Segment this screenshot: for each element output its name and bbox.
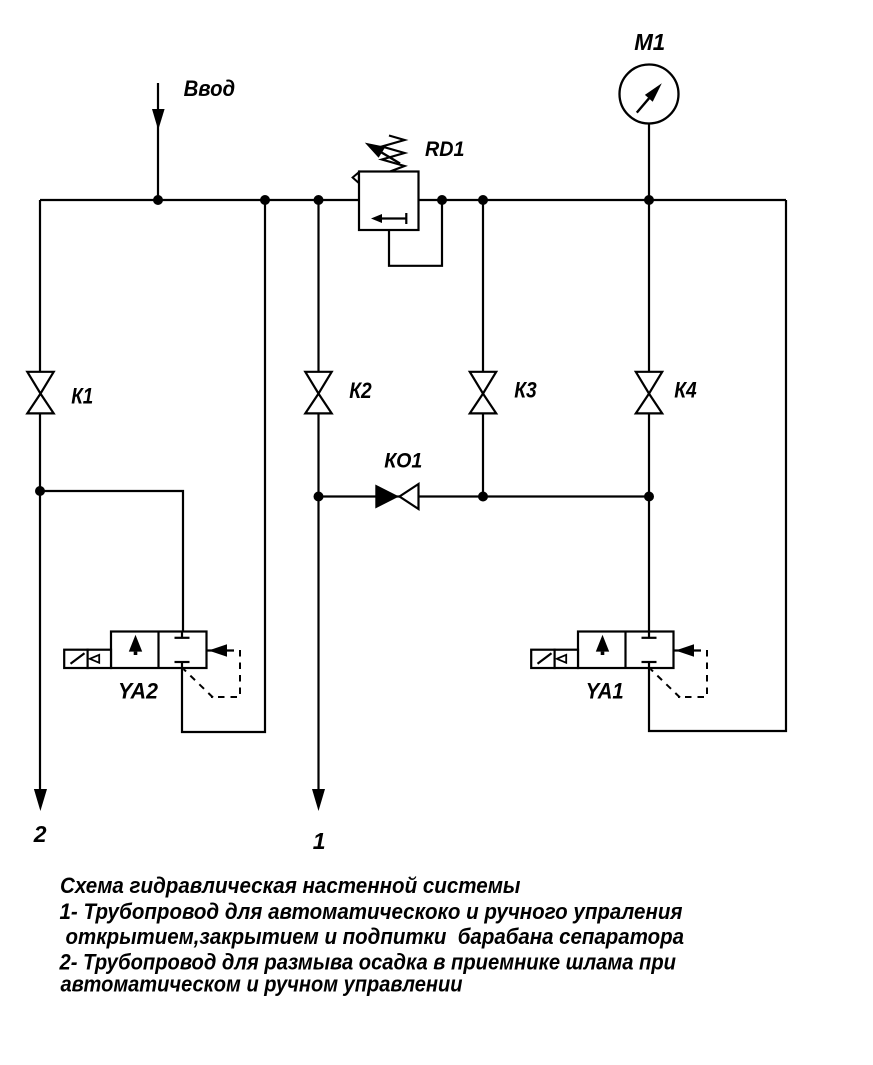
wire: main supply bus bbox=[40, 199, 786, 201]
junction dot: YA2 return/bus bbox=[260, 195, 270, 205]
arrow: outlet 2 bbox=[34, 789, 47, 811]
junction: K3 / KO1 node bbox=[478, 492, 488, 502]
YA2 position divider bbox=[157, 632, 159, 669]
wire: K3 drop from bus bbox=[482, 200, 484, 372]
wire: K4 node to YA1 inlet bbox=[648, 497, 650, 632]
wire: KO1 cross line bbox=[319, 495, 650, 497]
pressure gauge M1 bbox=[620, 65, 679, 124]
YA2 pilot box bbox=[88, 650, 111, 668]
wire: inlet drop (Ввод) bbox=[157, 83, 159, 200]
wire: K4 to KO1 node bbox=[648, 413, 650, 496]
svg-text:Схема гидравлическая настенной: Схема гидравлическая настенной системы bbox=[60, 873, 521, 898]
wire: left branch from bus to K1 bbox=[39, 200, 41, 372]
svg-text:автоматическом и ручном управл: автоматическом и ручном управлении bbox=[61, 972, 464, 997]
junction dot: M1/K4/bus bbox=[644, 195, 654, 205]
pressure regulator RD1 bbox=[353, 136, 442, 266]
solenoid valve YA2 bbox=[64, 632, 240, 698]
YA1 pilot dashed line bbox=[678, 650, 707, 697]
valve K2 bbox=[305, 372, 331, 414]
svg-text:Ввод: Ввод bbox=[184, 76, 236, 101]
wire: K2 drop from bus bbox=[317, 200, 319, 372]
wire: KO1 node to outlet 1 bbox=[317, 497, 319, 792]
RD1 body bbox=[359, 172, 419, 231]
svg-text:К2: К2 bbox=[349, 378, 372, 403]
M1 needle bbox=[637, 98, 649, 112]
YA1 body bbox=[578, 632, 674, 669]
YA1 pilot box bbox=[555, 650, 578, 668]
junction dot: RD1 feedback/bus bbox=[437, 195, 447, 205]
RD1 internal seat bar bbox=[405, 213, 407, 224]
YA1 position divider bbox=[624, 632, 626, 669]
YA2 pilot return arrow bbox=[207, 649, 234, 651]
check valve KO1 bbox=[375, 484, 418, 509]
YA1 pilot return arrow bbox=[674, 649, 701, 651]
svg-text:RD1: RD1 bbox=[425, 138, 465, 161]
YA1 blocked port top bbox=[648, 632, 650, 638]
svg-text:К4: К4 bbox=[674, 378, 697, 403]
wire: K4 drop from bus bbox=[648, 200, 650, 372]
YA2 solenoid box bbox=[64, 650, 87, 668]
M1 dial bbox=[620, 65, 679, 124]
RD1 internal arrow bbox=[378, 217, 406, 219]
arrow: inlet flow direction bbox=[152, 109, 165, 130]
svg-text:YA1: YA1 bbox=[586, 679, 624, 704]
wire: junction to outlet 2 bbox=[39, 491, 41, 791]
wire: M1 stem bbox=[648, 124, 650, 201]
YA2 pilot dashed line bbox=[211, 650, 240, 697]
junction dot: K3/bus bbox=[478, 195, 488, 205]
YA1 solenoid box bbox=[531, 650, 554, 668]
YA2 body bbox=[111, 632, 207, 669]
YA2 blocked port bottom bbox=[175, 661, 190, 663]
valve K4 bbox=[636, 372, 662, 414]
YA2 flow arrow (open position) bbox=[129, 635, 142, 652]
RD1 adjustment arrow bbox=[380, 152, 400, 164]
RD1 feedback loop wire bbox=[389, 200, 442, 266]
wire: K3 to KO1 line bbox=[482, 413, 484, 496]
valve K1 bbox=[27, 372, 53, 414]
YA1 blocked port bottom bbox=[642, 661, 657, 663]
RD1 vent arrowhead bbox=[353, 172, 359, 183]
svg-text:К1: К1 bbox=[71, 383, 93, 408]
YA2 blocked port top bbox=[181, 632, 183, 638]
svg-text:YA2: YA2 bbox=[118, 678, 159, 703]
junction: K2 / KO1 node bbox=[314, 492, 324, 502]
arrow: outlet 1 bbox=[312, 789, 325, 811]
junction dot: K2/bus bbox=[314, 195, 324, 205]
RD1 spring bbox=[382, 136, 405, 172]
wire: YA1 outlet loop back to bus bbox=[649, 200, 786, 731]
YA1 flow arrow (open position) bbox=[596, 635, 609, 652]
solenoid valve YA1 bbox=[531, 632, 707, 698]
wire: branch from K1 node to YA2 inlet bbox=[40, 491, 183, 632]
junction: K1 branch node bbox=[35, 486, 45, 496]
svg-text:КО1: КО1 bbox=[384, 449, 422, 472]
wire: YA2 outlet loop back to bus bbox=[182, 200, 265, 732]
wire: K1 to junction bbox=[39, 413, 41, 491]
svg-text:К3: К3 bbox=[514, 378, 537, 403]
wire: K2 to KO1 line bbox=[317, 413, 319, 496]
junction: K4 / KO1 node bbox=[644, 492, 654, 502]
svg-text:1- Трубопровод для автоматичес: 1- Трубопровод для автоматическоко и руч… bbox=[60, 899, 683, 924]
svg-text:открытием,закрытием и подпитки: открытием,закрытием и подпитки барабана … bbox=[66, 924, 685, 949]
svg-text:M1: M1 bbox=[634, 29, 665, 55]
svg-text:1: 1 bbox=[313, 828, 326, 854]
svg-text:2: 2 bbox=[33, 821, 47, 847]
valve K3 bbox=[470, 372, 496, 414]
junction dot: inlet/bus bbox=[153, 195, 163, 205]
